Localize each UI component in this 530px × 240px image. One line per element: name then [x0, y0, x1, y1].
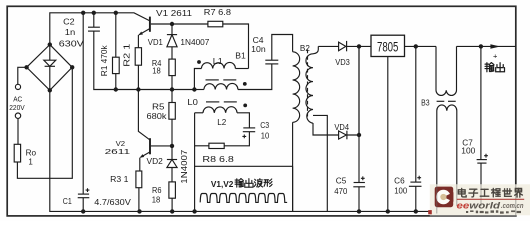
svg-text:10: 10 [261, 132, 270, 141]
svg-text:C2: C2 [63, 17, 75, 26]
svg-text:18: 18 [152, 67, 161, 76]
svg-text:R8 6.8: R8 6.8 [202, 155, 234, 164]
svg-text:VD1: VD1 [148, 38, 164, 47]
svg-text:1N4007: 1N4007 [180, 149, 189, 184]
svg-text:B3: B3 [421, 99, 430, 108]
svg-text:1n: 1n [65, 28, 76, 37]
svg-text:18: 18 [152, 195, 161, 204]
svg-text:630V: 630V [59, 39, 85, 48]
svg-text:VD4: VD4 [334, 123, 349, 132]
svg-text:VD2: VD2 [147, 157, 164, 166]
svg-text:VD3: VD3 [335, 58, 350, 67]
svg-text:L0: L0 [187, 98, 198, 107]
svg-text:R3 1: R3 1 [110, 175, 129, 184]
svg-text:2611: 2611 [105, 147, 131, 156]
svg-text:V1 2611: V1 2611 [156, 9, 193, 18]
svg-text:470: 470 [334, 187, 348, 196]
svg-text:100: 100 [394, 187, 408, 196]
svg-text:1N4007: 1N4007 [180, 38, 210, 47]
svg-text:V1,V2: V1,V2 [211, 180, 234, 189]
svg-text:C5: C5 [336, 176, 347, 185]
svg-text:B1: B1 [235, 51, 246, 60]
svg-text:R2 1: R2 1 [123, 43, 132, 67]
svg-text:eeworld: eeworld [457, 200, 501, 210]
svg-text:C6: C6 [394, 176, 405, 185]
svg-text:7805: 7805 [377, 38, 399, 54]
svg-text:Ro: Ro [26, 148, 37, 157]
svg-text:C1: C1 [63, 197, 72, 206]
svg-text:L2: L2 [217, 118, 227, 127]
svg-text:C4: C4 [253, 36, 265, 45]
svg-text:100: 100 [461, 146, 476, 155]
svg-text:680k: 680k [147, 112, 168, 121]
svg-text:C3: C3 [260, 121, 269, 130]
svg-text:220V: 220V [9, 103, 25, 112]
svg-text:R6: R6 [152, 186, 162, 195]
svg-text:1: 1 [28, 158, 33, 167]
svg-text:B2: B2 [300, 44, 311, 53]
svg-text:10n: 10n [251, 45, 265, 54]
svg-text:R5: R5 [152, 103, 165, 112]
svg-text:.com.cn: .com.cn [501, 203, 524, 210]
svg-text:R7 6.8: R7 6.8 [204, 8, 232, 17]
svg-text:L1: L1 [213, 57, 224, 66]
svg-text:4.7/630V: 4.7/630V [94, 198, 131, 207]
svg-text:R1 470k: R1 470k [100, 44, 109, 76]
svg-text:+: + [493, 52, 498, 61]
